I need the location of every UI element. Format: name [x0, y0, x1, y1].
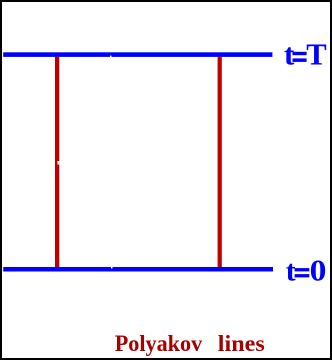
svg-text:t: t — [286, 255, 296, 287]
Polyakov line 2 (red vertical, right) — [218, 55, 222, 268]
svg-text:T: T — [306, 37, 327, 72]
svg-text:lines: lines — [218, 331, 265, 356]
label t=0 : equals sign — [295, 268, 310, 271]
time slice t=T (blue horizontal, top) — [3, 52, 272, 57]
time slice t=0 (blue horizontal, bottom) — [3, 267, 273, 272]
svg-text:Polyakov: Polyakov — [115, 331, 203, 356]
Polyakov line 1 (red vertical, left) — [55, 55, 59, 268]
nick artifact on top line — [110, 56, 112, 57]
nick artifact on bottom line — [111, 267, 113, 268]
svg-text:0: 0 — [310, 254, 327, 288]
label t=T : equals sign — [293, 52, 307, 55]
notch on Polyakov line 1 — [57, 161, 59, 165]
